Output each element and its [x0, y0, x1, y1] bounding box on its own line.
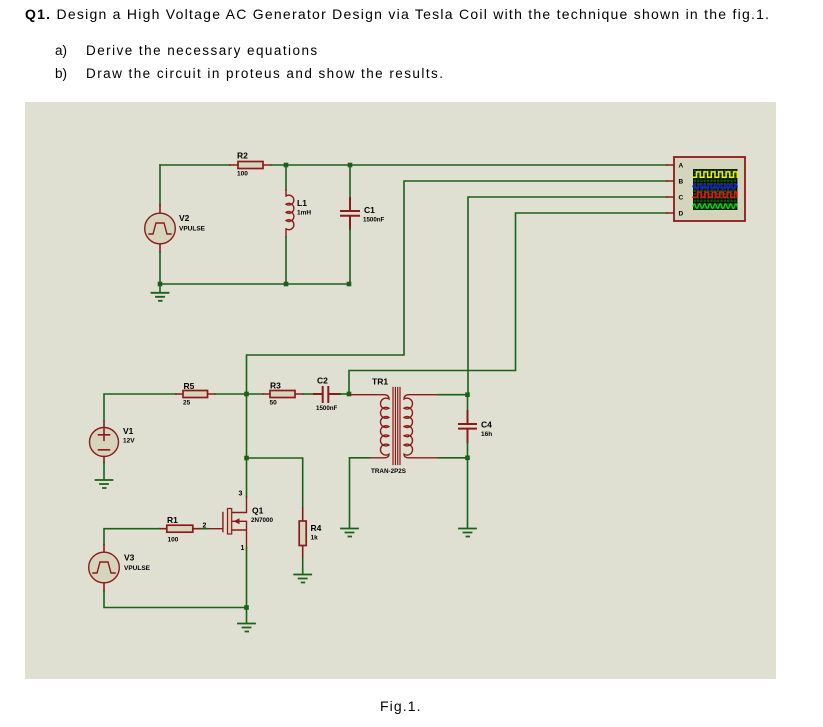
- svg-text:B: B: [679, 179, 684, 186]
- svg-text:R1: R1: [167, 515, 178, 525]
- capacitor C1: [341, 165, 385, 284]
- svg-text:25: 25: [183, 400, 191, 407]
- junction bottom rail at C1: [347, 282, 352, 287]
- item b: [55, 66, 67, 81]
- resistor R3: [263, 381, 303, 407]
- svg-text:2N7000: 2N7000: [251, 517, 274, 524]
- title line: [25, 6, 770, 22]
- wire V2 top: [159, 165, 161, 205]
- battery V1: [90, 421, 136, 463]
- wire R5 to node: [215, 393, 263, 395]
- svg-text:VPULSE: VPULSE: [179, 226, 206, 233]
- svg-text:50: 50: [270, 400, 278, 407]
- junction on top rail at L1: [284, 163, 289, 168]
- svg-text:Q1: Q1: [252, 506, 264, 516]
- transistor Q1: [208, 497, 274, 548]
- svg-text:1k: 1k: [311, 535, 319, 542]
- wire gate green: [200, 528, 208, 530]
- wire node to R4 top: [247, 458, 303, 508]
- trace channel B blue: [693, 184, 737, 189]
- wire TR1 secondary top to node: [438, 394, 468, 396]
- ground under TR1: [341, 529, 358, 537]
- capacitor C2: [314, 376, 340, 413]
- ground under V2: [152, 284, 169, 301]
- junction bottom rail at V2: [158, 282, 163, 287]
- wire V3 bottom to source node: [104, 591, 247, 608]
- resistor R1: [159, 515, 200, 544]
- svg-text:3: 3: [239, 491, 243, 498]
- wire channel D to scope: [349, 213, 667, 394]
- svg-text:V1: V1: [123, 426, 134, 436]
- svg-text:16h: 16h: [481, 431, 492, 438]
- wire R3 to C2: [303, 393, 314, 395]
- ground under source node: [238, 608, 255, 632]
- junction node R5/R3/B: [244, 392, 249, 397]
- ground under V1: [96, 480, 113, 488]
- junction on top rail at C1: [348, 163, 353, 168]
- wire Q1 drain: [246, 458, 248, 497]
- wire C4 node to ground: [467, 458, 469, 528]
- svg-text:V2: V2: [179, 213, 190, 223]
- svg-text:12V: 12V: [123, 438, 135, 445]
- transformer TR1: [350, 377, 438, 476]
- wire Q1 source down: [246, 548, 248, 608]
- junction source node: [244, 605, 249, 610]
- svg-text:C1: C1: [364, 205, 375, 215]
- svg-text:100: 100: [168, 537, 179, 544]
- wire channel B to scope: [247, 181, 668, 394]
- svg-text:R2: R2: [237, 151, 248, 161]
- junction node drain/R4: [244, 456, 249, 461]
- inductor L1: [286, 165, 311, 284]
- svg-text:R4: R4: [311, 523, 322, 533]
- svg-text:1: 1: [241, 545, 245, 552]
- schematic background: [25, 102, 776, 679]
- capacitor C4: [459, 395, 492, 458]
- wire V1 top to R5: [104, 394, 176, 421]
- oscilloscope body: [674, 157, 745, 221]
- item a: [55, 43, 67, 58]
- svg-text:C2: C2: [317, 376, 328, 386]
- wire top rail left: [160, 164, 230, 166]
- svg-text:TRAN-2P2S: TRAN-2P2S: [371, 468, 406, 475]
- svg-text:L1: L1: [297, 198, 307, 208]
- svg-text:D: D: [679, 211, 684, 218]
- svg-text:R3: R3: [270, 381, 281, 391]
- wire V3 top to R1: [104, 529, 159, 545]
- wire V2 bottom: [159, 252, 161, 284]
- svg-text:VPULSE: VPULSE: [124, 565, 151, 572]
- svg-text:R5: R5: [184, 381, 195, 391]
- trace channel A yellow: [693, 172, 738, 177]
- wire R4 bottom: [302, 558, 304, 575]
- wire node to Q1 drain column: [246, 394, 248, 458]
- generator V3: [89, 545, 151, 592]
- wire channel A to scope: [350, 164, 667, 166]
- oscilloscope screen: [693, 169, 738, 210]
- figure caption: [380, 698, 422, 714]
- junction node TR1/C4 top: [465, 392, 470, 397]
- wire top rail right: [271, 164, 350, 166]
- junction node C2/TR1: [347, 392, 352, 397]
- resistor R2: [230, 151, 271, 178]
- wire channel C to scope: [468, 197, 667, 394]
- svg-text:1500nF: 1500nF: [316, 405, 338, 412]
- generator V2: [145, 205, 206, 252]
- svg-text:C: C: [679, 195, 684, 202]
- oscilloscope pins: [667, 165, 674, 213]
- svg-text:V3: V3: [124, 553, 135, 563]
- svg-text:TR1: TR1: [372, 377, 388, 387]
- junction node TR1/C4 bottom: [465, 456, 470, 461]
- wire V1 bottom: [103, 463, 105, 480]
- trace channel D green: [693, 204, 737, 208]
- resistor R4: [299, 508, 321, 558]
- svg-text:A: A: [679, 163, 684, 170]
- wire bottom rail: [160, 283, 350, 285]
- svg-text:100: 100: [237, 171, 248, 178]
- wire C2 to node: [340, 393, 349, 395]
- trace channel C red: [693, 192, 737, 197]
- wire TR1 primary bottom: [350, 458, 371, 528]
- svg-text:1500nF: 1500nF: [363, 217, 385, 224]
- ground under C4: [459, 529, 476, 537]
- ground under R4: [294, 575, 311, 583]
- svg-text:1mH: 1mH: [297, 210, 311, 217]
- junction bottom rail at L1: [284, 282, 289, 287]
- svg-text:C4: C4: [481, 420, 492, 430]
- wire TR1 secondary bottom to node: [438, 457, 468, 459]
- resistor R5: [176, 381, 215, 407]
